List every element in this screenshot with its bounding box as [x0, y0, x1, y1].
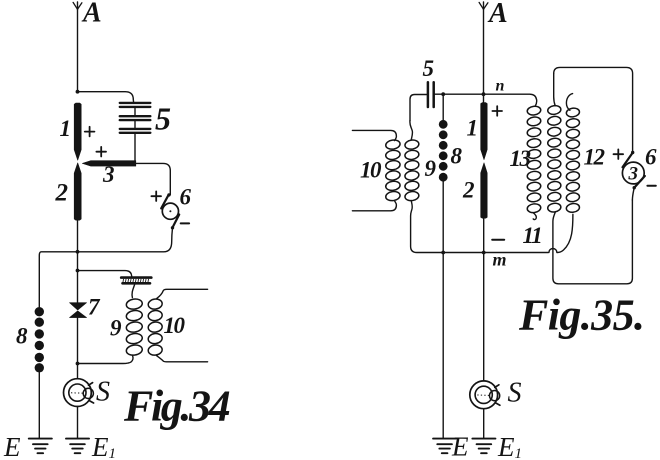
svg-text:6: 6	[645, 145, 657, 170]
interrupter S (Fig.34)	[64, 379, 94, 407]
wire: condenser to coil 9 top (Fig.34)	[132, 285, 135, 298]
loop rail top (Fig.35)	[554, 67, 633, 152]
wire: battery 8 to earth E (Fig.35)	[442, 182, 444, 439]
wire: battery 8 to earth E (Fig.34)	[38, 372, 40, 438]
junction dot at antenna branch (Fig.34)	[76, 90, 80, 94]
svg-text:11: 11	[523, 223, 542, 248]
svg-text:7: 7	[88, 295, 101, 320]
junction dot battery branch (Fig.35)	[441, 92, 445, 96]
ground E1 (Fig.34)	[66, 439, 89, 454]
svg-text:13: 13	[510, 146, 531, 171]
electrode 1 (Fig.34)	[74, 103, 81, 160]
svg-text:12: 12	[584, 145, 605, 170]
plus sign at galvanometer (Fig.35)	[614, 149, 624, 159]
junction dot battery line at node m rail (Fig.35)	[441, 251, 445, 255]
svg-text:10: 10	[360, 158, 382, 183]
svg-text:Fig.34: Fig.34	[123, 382, 230, 431]
svg-text:6: 6	[180, 185, 192, 210]
wire: coil 10 upper lead (Fig.35)	[352, 130, 396, 140]
junction dot at meter 3 upper lead (Fig.35)	[631, 151, 634, 154]
svg-text:3: 3	[102, 162, 115, 187]
svg-text:E1: E1	[497, 432, 522, 460]
coil 11 secondary inner (Fig.35)	[547, 105, 561, 213]
junction dot at coil 9 return (Fig.34)	[76, 362, 80, 366]
junction dot at lamp 6 lower lead (Fig.34)	[171, 226, 174, 229]
electrode plate 3 (Fig.34)	[82, 161, 136, 166]
svg-text:5: 5	[155, 101, 171, 137]
node m junction dot (Fig.35)	[482, 251, 486, 255]
svg-text:2: 2	[55, 180, 69, 207]
lamp/galvanometer 6 (Fig.34)	[161, 195, 179, 228]
junction dot at lamp 6 upper lead (Fig.34)	[167, 193, 170, 196]
svg-text:3: 3	[628, 164, 639, 185]
svg-text:E: E	[3, 432, 21, 460]
node n junction dot (Fig.35)	[482, 92, 486, 96]
plus sign at electrode 1 (Fig.35)	[492, 106, 502, 116]
interrupter S (Fig.35)	[470, 381, 500, 409]
coil 9 primary (Fig.34)	[126, 298, 143, 356]
wire: coil 11 top to loop rail (Fig.35)	[554, 74, 556, 106]
wire: coil 9 bottom to cathode line (Fig.34)	[78, 356, 133, 364]
electrode 2 (Fig.35)	[481, 163, 488, 218]
hop: node m rail crosses coil 11 wire (Fig.35)	[549, 249, 557, 253]
antenna A (Fig.34)	[73, 2, 82, 92]
svg-text:A: A	[487, 0, 508, 29]
wire: capacitor 5 to node n (Fig.35)	[435, 93, 484, 95]
ground E (Fig.35)	[433, 439, 456, 454]
detector 7 (Fig.34)	[70, 303, 87, 318]
coil 10 (Fig.35)	[385, 139, 401, 201]
wire: node n to electrode 1 (Fig.35)	[483, 94, 485, 103]
ground E1 (Fig.35)	[472, 439, 495, 454]
electrode 1 (Fig.35)	[481, 103, 488, 160]
svg-text:S: S	[508, 378, 522, 409]
antenna A (Fig.35)	[479, 2, 488, 94]
wire: plate 3 to lamp 6 (Fig.34)	[136, 163, 171, 194]
coil 13 primary (Fig.35)	[527, 105, 542, 213]
main vertical wire: electrode 2 to detector 7 (Fig.34)	[77, 220, 79, 303]
wire: coil 9 bottom to node m rail (Fig.35)	[411, 201, 548, 253]
wire: node n to coil 13 (Fig.35)	[484, 94, 537, 106]
wire: coil 10 lower lead (Fig.34)	[157, 356, 208, 362]
wire: coil 9 top link (Fig.35)	[410, 121, 413, 140]
wire: meter lower lead (Fig.35)	[632, 188, 634, 200]
svg-text:10: 10	[164, 313, 186, 338]
wire: branch to condenser above coil 9 (Fig.34)	[78, 271, 132, 277]
wire: interrupter S to earth E1 (Fig.35)	[483, 409, 485, 439]
capacitor C5 (Fig.35)	[428, 82, 434, 107]
wire: branch to capacitor 5 (Fig.34)	[78, 92, 134, 103]
wire: interrupter S to earth E1 (Fig.34)	[77, 407, 79, 439]
battery 8 (Fig.35)	[439, 94, 448, 181]
wire: node m rail to coil 12 bottom (Fig.35)	[557, 214, 573, 252]
svg-text:8: 8	[16, 324, 28, 349]
junction dot at meter 3 lower lead (Fig.35)	[633, 186, 636, 189]
svg-text:1: 1	[467, 116, 479, 141]
svg-text:1: 1	[60, 116, 72, 141]
svg-text:2: 2	[462, 178, 475, 203]
coil 10 secondary (Fig.34)	[148, 298, 163, 356]
wire: coil 10 upper lead (Fig.34)	[157, 289, 208, 298]
svg-text:S: S	[96, 377, 110, 408]
wire: capacitor 5 to tuned circuit (Fig.35)	[410, 95, 427, 121]
svg-text:A: A	[81, 0, 102, 29]
wire: coil 11 bottom through node m rail hop (Fig.35)	[553, 200, 633, 284]
svg-text:E: E	[451, 432, 469, 460]
wire: detector 7 to interrupter S (Fig.34)	[77, 318, 79, 379]
wire: node m to interrupter S (Fig.35)	[483, 253, 485, 381]
junction dot at condenser branch (Fig.34)	[76, 269, 80, 273]
wire: coil 12 top open curl (Fig.35)	[566, 94, 572, 111]
svg-text:Fig.35.: Fig.35.	[518, 291, 644, 340]
wire: lamp 6 return to battery branch (Fig.34)	[39, 228, 172, 307]
minus sign at lamp 6 (Fig.34)	[181, 222, 189, 224]
galvanometer 3/6 (Fig.35)	[622, 153, 644, 188]
plus sign above plate 3 (Fig.34)	[96, 147, 106, 157]
coil 9 (Fig.35)	[404, 139, 419, 201]
plus sign at electrode 1 (Fig.34)	[85, 127, 95, 137]
minus sign above node m (Fig.35)	[492, 239, 504, 241]
junction dot on cathode line (Fig.34)	[76, 250, 80, 254]
electrode 2 (Fig.34)	[74, 163, 81, 220]
wire: capacitor 5 bottom to plate 3 node (Fig.34)	[134, 133, 136, 163]
svg-text:n: n	[496, 78, 505, 95]
svg-text:9: 9	[110, 316, 122, 341]
coil 12 secondary outer (Fig.35)	[566, 107, 580, 213]
capacitor C5 (Fig.34)	[120, 103, 151, 133]
wire: coil 10 lower lead (Fig.35)	[352, 201, 396, 211]
svg-text:9: 9	[425, 156, 437, 181]
wire: coil 13 bottom open curl (Fig.35)	[533, 213, 536, 220]
svg-text:m: m	[493, 250, 507, 270]
battery 8 (Fig.34)	[35, 307, 44, 372]
ground E (Fig.34)	[29, 439, 52, 454]
svg-text:E1: E1	[91, 432, 116, 460]
svg-text:5: 5	[423, 56, 435, 81]
minus sign at galvanometer (Fig.35)	[647, 185, 655, 187]
svg-text:8: 8	[451, 144, 463, 169]
plus sign at lamp 6 (Fig.34)	[151, 191, 161, 201]
condenser above coil 9 (Fig.34)	[121, 278, 151, 284]
wire: electrode 2 to node m (Fig.35)	[483, 218, 485, 253]
